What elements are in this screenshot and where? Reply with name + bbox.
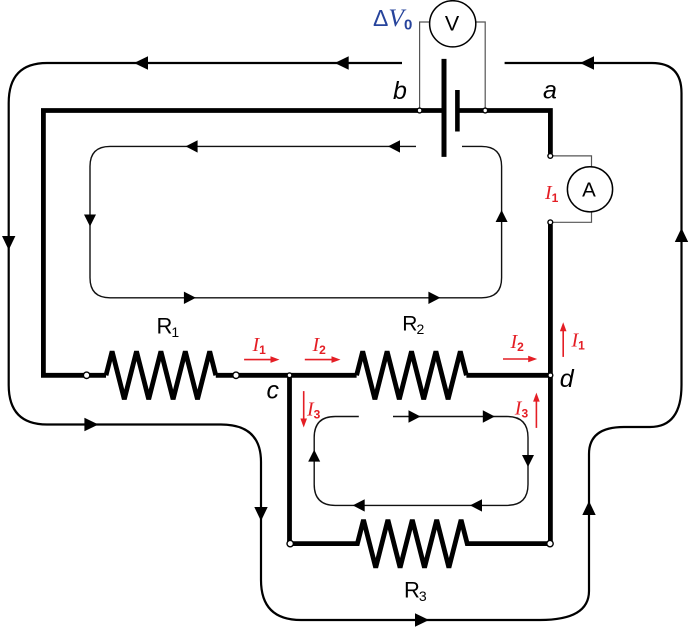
svg-text:a: a — [543, 77, 557, 105]
svg-text:b: b — [393, 77, 407, 105]
svg-text:c: c — [267, 376, 280, 404]
svg-text:V: V — [445, 12, 460, 36]
svg-text:A: A — [582, 179, 596, 202]
svg-text:d: d — [560, 365, 575, 393]
